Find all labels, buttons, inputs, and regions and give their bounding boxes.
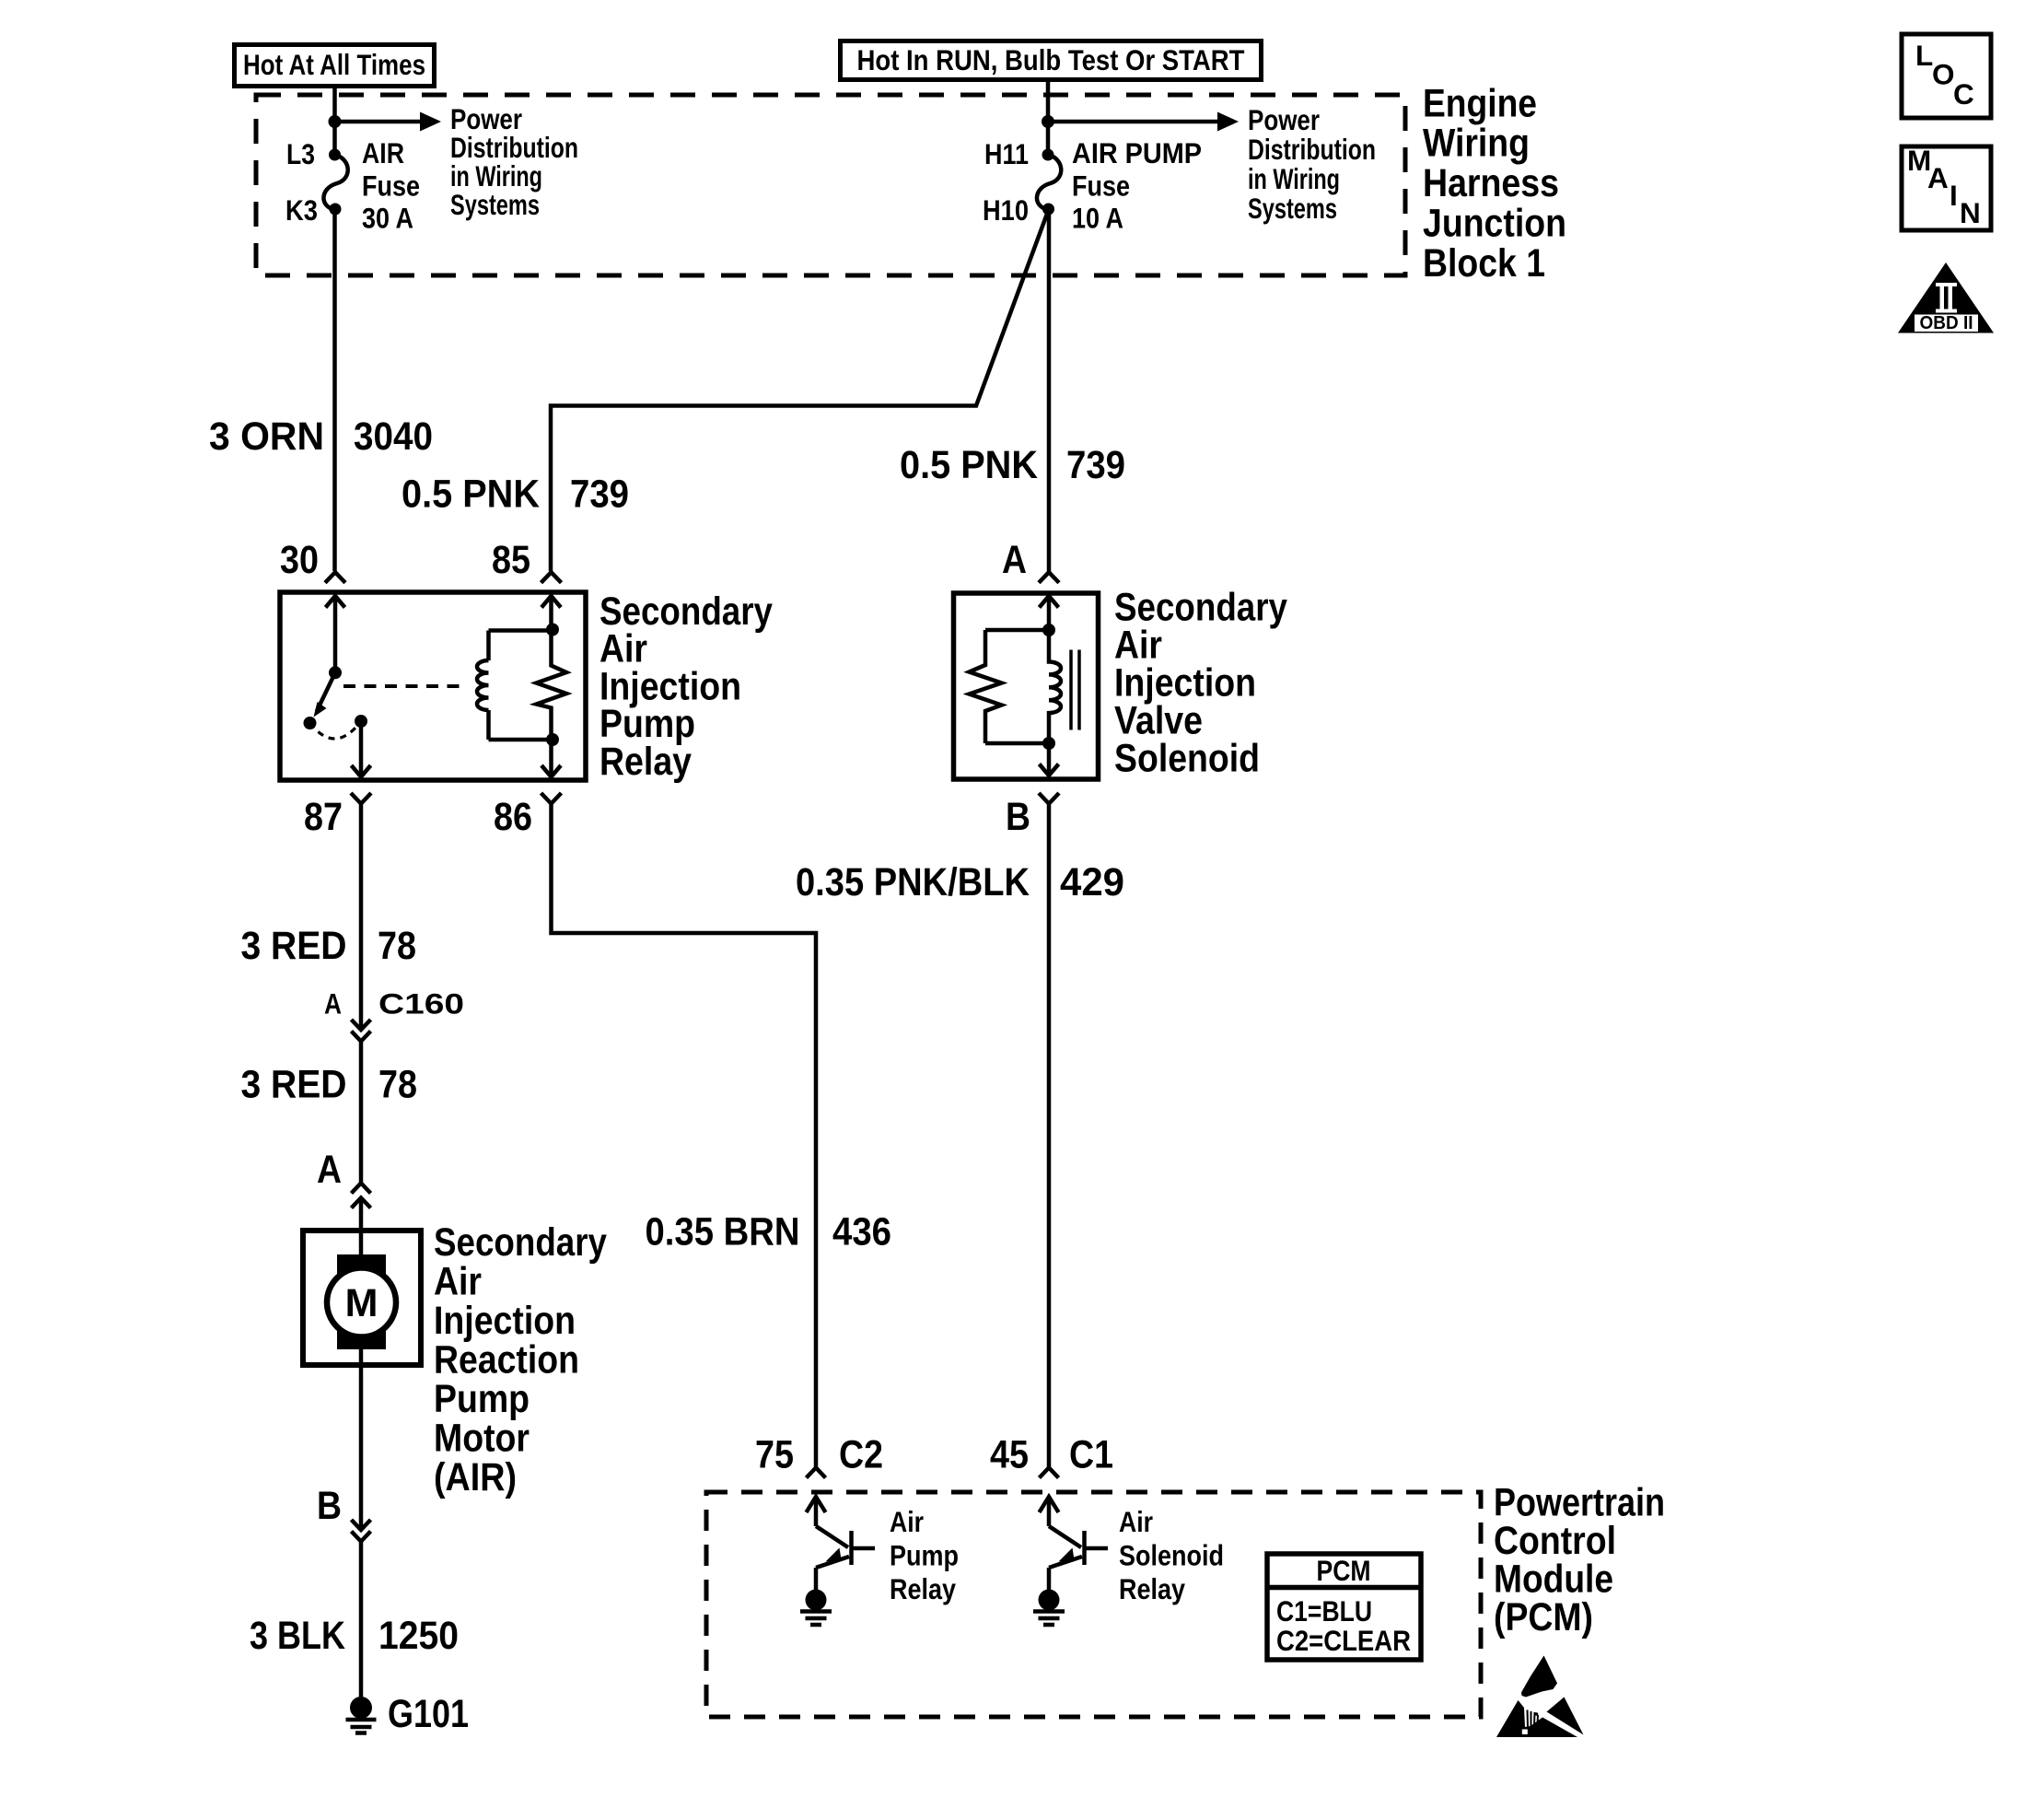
relay switch pivot dot [329,666,342,679]
relay K1 Secondary Air Injection Pump Relay box [280,592,586,780]
svg-text:Relay: Relay [599,740,692,784]
connector chevron solenoid pin A [1039,572,1059,582]
label Air Solenoid Relay [1119,1505,1224,1605]
transistor Q2 air solenoid relay driver [1040,1497,1109,1590]
svg-text:C2=CLEAR: C2=CLEAR [1276,1624,1411,1657]
wire label 3 RED 78 (upper) [241,924,417,968]
svg-text:Pump: Pump [434,1377,530,1421]
motor connector pin B arrow and chevron [352,1520,371,1542]
ground G101 [346,1697,377,1733]
relay coil resistor [537,629,567,740]
motor connector pin A chevron and arrow [352,1184,371,1231]
svg-text:Solenoid: Solenoid [1119,1539,1224,1572]
wire pin 87 down to connector C160 [359,804,364,1031]
wire motor to pin B connector [359,1365,364,1530]
label Powertrain Control Module (PCM) [1494,1481,1665,1640]
svg-text:429: 429 [1060,860,1124,904]
svg-text:Block 1: Block 1 [1423,241,1545,286]
wire pin 86 to PCM pin 75 [552,804,817,1468]
fuse name AIR Fuse 30 A [362,136,420,235]
connector chevron pin 85 [541,572,562,582]
svg-text:C1=BLU: C1=BLU [1276,1594,1372,1627]
svg-text:H10: H10 [983,193,1029,227]
svg-text:436: 436 [832,1210,891,1254]
solenoid coil [1049,630,1061,743]
svg-text:1250: 1250 [378,1614,459,1658]
svg-text:Systems: Systems [1248,192,1337,225]
svg-text:A: A [317,1148,342,1192]
svg-text:30: 30 [280,538,319,582]
svg-text:0.35 PNK/BLK: 0.35 PNK/BLK [796,860,1030,904]
power distribution arrow left [335,112,442,132]
PCM dashed box [706,1492,1481,1717]
svg-text:AIR: AIR [362,136,404,169]
svg-text:Relay: Relay [890,1572,956,1605]
svg-text:78: 78 [378,924,416,968]
wire label 3 BLK 1250 [250,1614,459,1658]
svg-text:0.5 PNK: 0.5 PNK [900,443,1038,487]
svg-text:Hot At All Times: Hot At All Times [243,48,425,81]
svg-text:Distribution: Distribution [1248,133,1376,166]
svg-text:Relay: Relay [1119,1572,1185,1605]
svg-text:(PCM): (PCM) [1494,1595,1593,1639]
junction block dashed box [256,95,1405,275]
svg-text:Wiring: Wiring [1423,122,1530,166]
svg-text:Engine: Engine [1423,82,1537,126]
svg-text:Systems: Systems [450,188,540,221]
svg-text:3 RED: 3 RED [241,1063,347,1107]
svg-text:B: B [317,1484,342,1528]
solenoid parallel resistor [970,630,1050,743]
wire label 0.35 PNK/BLK 429 [796,860,1124,904]
svg-text:M: M [345,1281,378,1325]
relay coil junction dots [546,624,559,636]
svg-text:B: B [1006,795,1030,839]
svg-text:3 BLK: 3 BLK [250,1614,345,1658]
svg-text:3040: 3040 [354,414,433,459]
svg-text:C160: C160 [378,987,464,1021]
label Air Pump Relay [890,1505,959,1605]
svg-text:86: 86 [494,795,532,839]
svg-text:45: 45 [990,1433,1029,1477]
svg-text:K3: K3 [285,193,318,227]
LOC symbol [1902,34,1991,118]
power source box "Hot At All Times" [235,45,435,87]
svg-text:Secondary: Secondary [434,1220,607,1265]
ground at Q2 emitter [1033,1590,1065,1626]
svg-text:O: O [1932,58,1955,91]
svg-text:0.35 BRN: 0.35 BRN [646,1210,800,1254]
motor brush top [337,1254,386,1277]
MAIN symbol [1902,144,1991,230]
PCM connector table [1267,1554,1421,1660]
wire label 0.5 PNK 739 (right) [900,443,1125,487]
solenoid core lines [1071,650,1079,730]
fuse AIR PUMP Fuse 10 A [1037,149,1061,216]
svg-text:in Wiring: in Wiring [1248,162,1340,195]
wire from Hot At All Times to fuse L3 [332,86,337,155]
svg-text:C: C [1953,77,1974,111]
relay coil [477,631,553,741]
svg-text:Air: Air [890,1505,924,1538]
relay switch arm with arrowhead [314,672,336,717]
connector chevron pin 87 [351,793,371,804]
connector chevron pin 86 [541,793,562,804]
svg-text:85: 85 [492,538,530,582]
label Secondary Air Injection Pump Relay [599,589,773,784]
svg-text:78: 78 [378,1063,417,1107]
text Power Distribution in Wiring Systems (right) [1248,103,1376,225]
power distribution arrow right [1048,112,1239,132]
solenoid Secondary Air Injection Valve Solenoid box [954,593,1099,779]
relay dashed actuator link [343,684,466,688]
svg-text:Injection: Injection [434,1299,576,1343]
solenoid pin A internal wire with up arrow [1040,596,1059,630]
svg-text:3 ORN: 3 ORN [209,414,324,459]
svg-text:OBD II: OBD II [1920,313,1973,333]
relay dashed throw arc [310,721,362,739]
svg-text:Air: Air [1119,1505,1153,1538]
connector chevron PCM pin 45 [1040,1468,1059,1478]
label Secondary Air Injection Reaction Pump Motor (AIR) [434,1220,607,1499]
svg-text:Fuse: Fuse [362,169,420,203]
svg-text:I: I [1950,179,1958,212]
wire from Hot In RUN box to fuse H11 [1046,79,1051,155]
label A C160 [324,987,464,1021]
svg-text:PCM: PCM [1317,1554,1371,1587]
pin label 45 C1 [990,1433,1113,1477]
svg-text:Reaction: Reaction [434,1338,579,1382]
solenoid top junction dot [1042,624,1055,636]
svg-text:AIR PUMP: AIR PUMP [1072,136,1202,169]
svg-text:10 A: 10 A [1072,202,1123,235]
relay pin 30 internal wire with up arrow [326,596,345,672]
wire fuse K3 to relay pin 30 [332,209,337,571]
relay pin 87 internal wire with down arrow [352,721,371,777]
relay pin 87 contact dot [355,715,367,728]
wire fuse H10 down to solenoid pin A [1047,209,1052,572]
svg-text:Power: Power [1248,103,1320,136]
svg-text:Air: Air [434,1260,482,1304]
label Engine Wiring Harness Junction Block 1 [1423,82,1566,286]
relay pin 86 internal wire with down arrow [541,740,561,777]
svg-text:A: A [1002,538,1027,582]
svg-text:739: 739 [570,472,629,517]
relay NC contact dot [304,717,317,729]
solenoid bottom junction dot [1042,737,1055,750]
svg-text:Pump: Pump [890,1539,959,1572]
connector chevron solenoid pin B [1039,793,1059,804]
OBD II symbol [1898,262,1994,333]
wire connector to ground G101 [359,1542,364,1700]
fuse AIR Fuse 30 A [323,149,347,216]
wire branch diagonal from H10 to relay pin 85 [551,210,1049,571]
svg-text:C2: C2 [839,1433,883,1477]
motor internal wire top [359,1231,364,1260]
svg-text:H11: H11 [984,137,1029,170]
ground at Q1 emitter [800,1590,832,1626]
svg-text:Solenoid: Solenoid [1114,737,1260,781]
svg-text:G101: G101 [388,1692,469,1736]
svg-text:30 A: 30 A [362,202,413,235]
pin label 75 C2 [755,1433,883,1477]
svg-text:A: A [324,987,342,1021]
svg-text:Junction: Junction [1423,202,1566,246]
transistor Q1 air pump relay driver [807,1497,876,1590]
motor internal wire bottom [359,1349,364,1365]
label Secondary Air Injection Valve Solenoid [1114,586,1287,781]
connector chevron PCM pin 75 [807,1468,826,1478]
svg-text:0.5 PNK: 0.5 PNK [402,472,540,517]
ESD warning symbol [1496,1656,1584,1738]
motor brush bottom [337,1328,386,1349]
svg-text:75: 75 [755,1433,794,1477]
power source box "Hot In RUN, Bulb Test Or START" [841,41,1262,80]
wire C160 to motor pin A [359,1042,364,1184]
svg-text:C1: C1 [1069,1433,1113,1477]
svg-text:3 RED: 3 RED [241,924,347,968]
connector chevron pin 30 [325,572,345,582]
wire label 3 RED 78 (lower) [241,1063,418,1107]
junction dot right [1042,115,1054,128]
motor Secondary Air Injection Reaction Pump Motor box [303,1231,421,1365]
wire label 3 ORN 3040 [209,414,433,459]
in-line connector C160 [352,1020,371,1042]
junction dot left [329,115,342,128]
text Power Distribution in Wiring Systems (left) [450,102,578,221]
svg-text:739: 739 [1066,443,1125,487]
wire label 0.5 PNK 739 (left) [402,472,629,517]
svg-text:L: L [1915,39,1933,72]
svg-text:(AIR): (AIR) [434,1455,517,1499]
solenoid pin B internal wire with down arrow [1040,743,1059,776]
svg-text:Motor: Motor [434,1417,530,1461]
svg-text:Fuse: Fuse [1072,169,1130,203]
svg-text:N: N [1960,196,1981,229]
wire label 0.35 BRN 436 [646,1210,892,1254]
svg-text:A: A [1927,161,1949,194]
svg-text:L3: L3 [286,137,315,170]
svg-text:87: 87 [304,795,343,839]
svg-text:Hot In RUN, Bulb Test Or START: Hot In RUN, Bulb Test Or START [857,43,1245,76]
fuse name AIR PUMP Fuse 10 A [1072,136,1202,235]
relay pin 85 internal wire with up arrow [541,596,561,629]
svg-text:Harness: Harness [1423,161,1559,205]
motor circle M [327,1268,396,1337]
wire solenoid pin B to PCM pin 45 [1047,804,1052,1468]
